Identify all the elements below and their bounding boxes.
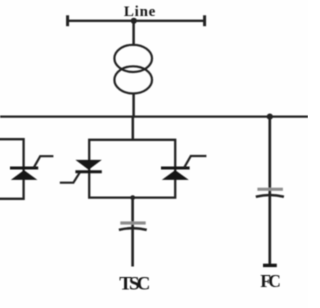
terminal tick right (203, 15, 206, 26)
thyristor TSC right (upward) cathode bar (161, 167, 190, 170)
junction dot TSC loop bottom (130, 195, 135, 200)
capacitor TSC top plate (120, 221, 145, 224)
thyristor TSC left cathode bar (75, 170, 101, 173)
wire Line to transformer (132, 21, 135, 46)
transformer T1 primary winding (114, 45, 152, 72)
junction dot on Line (131, 18, 137, 24)
thyristor TSC right triangle (162, 170, 189, 180)
svg-text:TSC: TSC (119, 274, 150, 295)
capacitor FC bottom plate (curved) (256, 195, 284, 197)
transformer T1 secondary winding (114, 66, 152, 93)
wire TCR loop (left branch, cut at image edge) (0, 139, 24, 199)
svg-text:FC: FC (260, 271, 281, 291)
thyristor TSC left (downward) triangle (75, 160, 101, 170)
wire TSC loop (89, 140, 175, 198)
thyristor TCR (upward) cathode bar (10, 167, 38, 170)
bus (0, 115, 308, 117)
node Line terminal bar (67, 20, 207, 22)
thyristor TSC right gate (184, 156, 206, 168)
wire TSC capacitor lead (131, 198, 134, 267)
FC end terminal bar (263, 264, 277, 267)
thyristor TCR (upward) triangle (11, 170, 38, 180)
capacitor TSC bottom plate (curved) (119, 228, 147, 230)
wire TSC feed (132, 117, 135, 141)
junction dot FC on bus (267, 114, 273, 120)
thyristor TCR gate (34, 156, 54, 167)
wire FC branch (268, 117, 271, 266)
capacitor FC top plate (257, 188, 283, 191)
thyristor TSC left gate (60, 172, 80, 182)
terminal tick left (66, 15, 69, 26)
wire transformer to bus (132, 93, 135, 117)
svg-text:Line: Line (124, 4, 156, 20)
